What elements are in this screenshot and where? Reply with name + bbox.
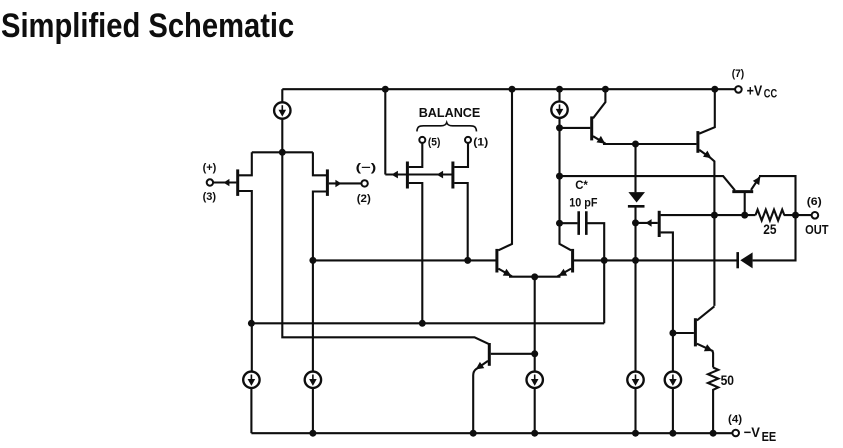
node Q13 collector-I3 line: [531, 350, 538, 357]
arrow Q14 emitter: [704, 344, 713, 351]
transistor Q5 balance FET bar: [406, 162, 409, 189]
node common-source junction: [279, 149, 286, 156]
current source I2: [551, 102, 567, 118]
node rail-R2: [710, 430, 717, 437]
wire mirror base line right: [574, 259, 738, 261]
svg-text:+V: +V: [747, 83, 763, 99]
arrow Q6 balance gate: [437, 171, 444, 179]
node C* bottom junction: [601, 257, 608, 264]
node Q9 base tap: [556, 124, 563, 131]
wire I2 node to Q11 base line: [560, 176, 735, 190]
terminal (5) balance: [419, 136, 440, 148]
transistor Q11 bar: [732, 190, 753, 193]
capacitor C1 plates: [579, 211, 587, 235]
current source I3: [527, 372, 543, 388]
transistor Q8 bar: [571, 249, 574, 273]
node rail-I7: [309, 430, 316, 437]
transistor Q12 bar: [658, 211, 661, 237]
wire Q11 emitter: [751, 177, 760, 190]
svg-text:CC: CC: [764, 89, 778, 101]
wire Q9 collector: [593, 89, 605, 118]
arrow Q8 emitter: [559, 269, 568, 276]
wire Q7 collector line: [498, 89, 512, 250]
svg-text:10 pF: 10 pF: [569, 197, 597, 210]
node D1-Q12 gate junction: [632, 219, 639, 226]
svg-text:(6): (6): [807, 196, 822, 208]
transistor Q6 balance FET bar: [451, 162, 454, 189]
wire collector bus y=323: [251, 322, 604, 324]
arrow Q5 balance gate: [391, 171, 398, 179]
svg-text:(5): (5): [428, 136, 440, 148]
wire I5 to rail: [672, 388, 674, 433]
wire Q14 collector: [697, 306, 715, 320]
wire top +Vcc rail: [282, 88, 735, 90]
current source I7: [305, 372, 321, 388]
terminal (6) OUT: [805, 196, 829, 237]
wire Q14 base: [673, 332, 694, 334]
transistor Q9 bar: [590, 116, 593, 140]
wire C* left lead: [560, 222, 578, 224]
node Q11 base-out line: [741, 212, 748, 219]
node Q6 source-base line: [464, 257, 471, 264]
wire Q9 emitter: [593, 136, 696, 144]
arrow Q11 emitter: [753, 177, 761, 186]
arrow Q13 emitter: [476, 362, 485, 370]
node Q5 source-bus junction: [419, 320, 426, 327]
arrow Q7 emitter: [503, 269, 512, 276]
wire from rail to I1: [281, 89, 283, 102]
wire Q6 drain lead to pin 1: [454, 143, 468, 167]
wire Q1 source lead: [238, 152, 252, 175]
title Simplified Schematic: [1, 7, 294, 46]
wire bottom -Vee rail: [251, 432, 732, 434]
wire I2 down to Q8 collector: [560, 118, 572, 251]
svg-text:(1): (1): [473, 136, 488, 148]
wire balance gate line: [385, 173, 452, 175]
svg-text:EE: EE: [762, 429, 777, 444]
wire Q12 source lead: [661, 232, 673, 372]
node rail-Q10 junction: [711, 86, 718, 93]
resistor R2 50: [708, 368, 718, 434]
wire Q5 source lead: [409, 183, 423, 323]
node OUT junction: [792, 212, 799, 219]
wire Q11 base: [744, 192, 746, 216]
svg-text:(2): (2): [357, 193, 371, 205]
arrow Q2 gate: [335, 180, 341, 187]
node rail-balance junction: [382, 86, 389, 93]
wire Q2 gate lead: [329, 182, 362, 184]
transistor Q14 bar: [694, 318, 697, 346]
current source I4: [627, 372, 643, 388]
wire I7 to rail: [312, 388, 314, 433]
wire rail to balance gates: [384, 89, 386, 174]
terminal (4) -Vee: [728, 414, 776, 444]
diode D2 triangle: [740, 252, 752, 268]
wire R1 to OUT: [784, 214, 812, 216]
svg-text:(+): (+): [203, 162, 217, 174]
current source I1: [274, 102, 290, 118]
node rail-I4: [632, 430, 639, 437]
wire Q7 emitter: [498, 269, 534, 277]
wire I3 to rail: [534, 388, 536, 433]
wire Q13 collector: [491, 353, 535, 355]
wire I4 to rail: [634, 388, 636, 433]
arrow Q9 emitter: [597, 136, 606, 144]
wire Q11 emitter to output column: [759, 176, 796, 215]
svg-text:(−): (−): [356, 161, 377, 174]
wire D2 to output column: [753, 214, 796, 260]
wire I6 to rail: [250, 388, 252, 433]
node C* left plate tap: [556, 220, 563, 227]
wire Q2 drain lead: [313, 192, 327, 372]
node D1-output diode line junction: [632, 257, 639, 264]
resistor R1 25: [756, 210, 785, 221]
transistor Q1 input JFET bar: [236, 169, 239, 196]
wire tail line down to mirror base: [282, 152, 489, 344]
wire Q14 emitter: [697, 344, 713, 368]
wire diff emitters to I3: [534, 277, 536, 372]
node Q2 drain-base line: [309, 257, 316, 264]
svg-text:(4): (4): [728, 414, 742, 426]
terminal (3) + input: [203, 162, 217, 203]
brace under BALANCE label: [417, 123, 477, 132]
wire Q12 gate: [637, 222, 658, 224]
node C* top tap: [556, 173, 563, 180]
current source I5: [665, 372, 681, 388]
node rail-I2 junction: [556, 86, 563, 93]
svg-text:−V: −V: [744, 425, 760, 440]
wire D1 cathode down: [634, 206, 636, 372]
wire I1 to input pair sources: [281, 119, 283, 153]
wire Q9 base line: [560, 127, 591, 129]
svg-text:OUT: OUT: [805, 222, 829, 237]
svg-text:BALANCE: BALANCE: [419, 105, 481, 120]
node rail-Q9 junction: [602, 86, 609, 93]
transistor Q10 bar: [696, 131, 699, 153]
node diff emitter junction: [531, 273, 538, 280]
wire Q1 gate lead: [213, 181, 236, 183]
node rail-I5: [669, 430, 676, 437]
wire Q2 source lead: [313, 152, 327, 175]
terminal (2) - input: [356, 161, 377, 205]
wire Q8 emitter: [535, 269, 571, 277]
wire common source line: [252, 151, 313, 153]
node Q12 drain-output column: [711, 212, 718, 219]
wire Q6 source lead: [454, 183, 467, 260]
wire Q10 collector: [699, 89, 715, 133]
wire Q13 emitter: [473, 361, 488, 433]
diode D1 cathode bar: [628, 205, 645, 208]
current source I6: [243, 372, 259, 388]
node rail-I3: [531, 430, 538, 437]
node rail-Q7 collector junction: [509, 86, 516, 93]
wire D1 anode: [634, 144, 636, 192]
diode D2 cathode bar: [736, 252, 739, 268]
transistor Q13 bar: [488, 343, 491, 366]
diode D1 triangle: [628, 192, 645, 202]
svg-text:25: 25: [763, 221, 776, 237]
wire Q5 drain lead to pin 5: [409, 143, 423, 167]
wire Q1 drain lead: [238, 191, 252, 372]
terminal (1) balance: [465, 136, 488, 148]
wire Q10 emitter: [699, 150, 714, 306]
node Q1 drain-bus junction: [248, 320, 255, 327]
svg-text:(3): (3): [203, 191, 217, 203]
transistor Q7 bar: [495, 249, 498, 273]
wire Q12 drain lead: [661, 214, 756, 216]
wire rail to I2: [558, 89, 560, 101]
transistor Q2 input JFET bar: [326, 169, 329, 196]
node rail-Q13: [470, 430, 477, 437]
node Q9 emitter to diode D1: [632, 141, 639, 148]
arrow Q1 gate: [223, 179, 229, 186]
svg-text:50: 50: [721, 372, 734, 388]
svg-text:(7): (7): [732, 68, 744, 80]
wire C* right lead: [588, 223, 605, 323]
node Q14 base junction: [669, 330, 676, 337]
arrow Q12 gate: [646, 219, 652, 227]
arrow Q10 emitter: [703, 151, 712, 159]
terminal (7) +Vcc: [732, 68, 778, 101]
wire mirror base line left: [313, 259, 496, 261]
svg-text:C*: C*: [575, 179, 588, 192]
